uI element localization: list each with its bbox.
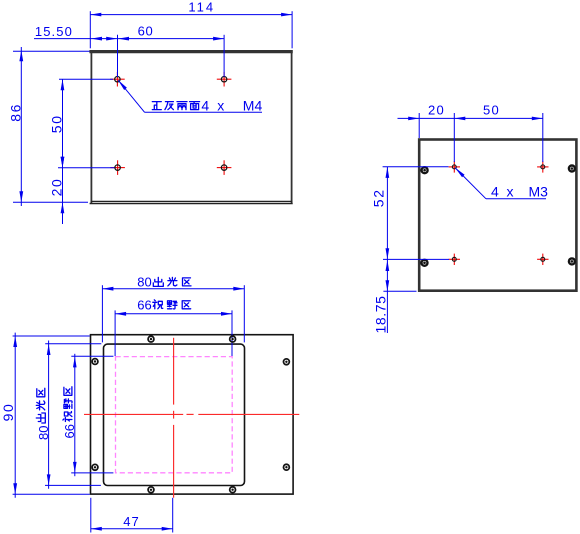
svg-text:M4: M4 <box>243 98 263 114</box>
view 1 hole H3 (bottom-left M4) <box>110 167 125 169</box>
svg-text:50: 50 <box>48 114 64 133</box>
view 3 screw 2 <box>230 336 236 342</box>
svg-text:86: 86 <box>8 103 24 122</box>
svg-text:66: 66 <box>62 424 77 438</box>
view 2 hole M3-4 <box>537 258 548 260</box>
view 1 plate outline (side view) <box>89 50 292 204</box>
view 2 hole M3-1 <box>449 166 460 168</box>
view 2 hole M3-3 <box>449 258 460 260</box>
dimension 52 (view 2) <box>371 167 449 260</box>
view 1 hole H1 (top-left M4) <box>110 78 125 80</box>
svg-text:4: 4 <box>491 184 499 200</box>
view 3 screw 6 <box>284 464 290 470</box>
view 3 bezel window outline <box>104 344 245 485</box>
view 2 side hole S3 <box>422 260 428 266</box>
view 2 hole M3-2 <box>537 166 548 168</box>
svg-text:80: 80 <box>36 426 51 440</box>
svg-text:4: 4 <box>201 98 209 114</box>
view 2 side hole S4 <box>569 258 575 264</box>
svg-text:66: 66 <box>137 298 151 313</box>
svg-text:60: 60 <box>138 23 154 38</box>
centerline horizontal (view 3) <box>84 413 299 415</box>
dimension 50 (view 1 hole vertical spacing) <box>48 79 114 168</box>
dimension 47 (view 3 bottom) <box>91 498 173 533</box>
view 2 side hole S2 <box>569 166 575 172</box>
dimension 15.50 (view 1, edge to hole) <box>34 24 118 40</box>
view 2 plate outline <box>419 140 576 291</box>
view 3 screw 5 <box>92 464 98 470</box>
svg-text:M3: M3 <box>529 184 549 200</box>
view 2 side hole S1 <box>422 167 428 173</box>
dimension 80出光区 (view 3 top) <box>102 275 244 343</box>
svg-text:18.75: 18.75 <box>373 295 389 333</box>
svg-text:x: x <box>217 98 224 114</box>
svg-text:15.50: 15.50 <box>35 24 73 39</box>
dimension 114 (view 1 top width) <box>90 0 292 48</box>
leader note 正反两面4 x M4 (view 1) <box>118 80 263 114</box>
view 1 hole H4 (bottom-right M4) <box>217 167 232 169</box>
dimension 80出光区 (view 3 left) <box>36 341 101 489</box>
view 3 outer plate outline <box>91 335 294 494</box>
svg-text:20: 20 <box>48 178 64 197</box>
view 1 hole H2 (top-right M4) <box>217 78 232 80</box>
svg-text:47: 47 <box>123 514 139 529</box>
dimension 90 (view 3 height) <box>0 333 90 498</box>
dimension 50 (view 2) <box>454 103 543 162</box>
view 3 screw 3 <box>92 359 98 365</box>
svg-text:52: 52 <box>371 188 387 207</box>
svg-text:90: 90 <box>0 403 16 422</box>
view 3 field-of-view dashed rectangle <box>116 357 233 473</box>
centerline vertical (view 3) <box>173 338 175 498</box>
view 3 screw 1 <box>148 336 154 342</box>
view 3 screw 8 <box>230 487 236 493</box>
view 3 screw 4 <box>284 359 290 365</box>
dimension 18.75 (view 2) <box>373 259 417 333</box>
svg-text:20: 20 <box>428 103 445 118</box>
dimension 20 (view 2) <box>398 103 466 162</box>
svg-text:x: x <box>507 184 514 200</box>
dimension 86 (view 1 height) <box>8 47 90 206</box>
dimension 60 (view 1 hole spacing) <box>118 23 225 77</box>
leader note 4 x M3 (view 2) <box>455 168 548 200</box>
view 3 screw 7 <box>148 487 154 493</box>
svg-text:50: 50 <box>483 103 500 118</box>
dimension 66视野区 (view 3 left) <box>62 354 113 476</box>
svg-text:80: 80 <box>137 275 151 290</box>
svg-text:114: 114 <box>188 0 215 15</box>
dimension 20 (view 1 hole to bottom) <box>48 156 64 224</box>
dimension 66视野区 (view 3 top) <box>115 298 232 356</box>
